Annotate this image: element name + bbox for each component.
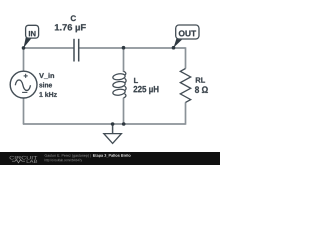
footer logo squiggle <box>12 160 25 163</box>
voltage source plus sign <box>24 74 28 78</box>
wire left branch upper <box>23 47 25 71</box>
wire inductor bottom lead <box>123 98 125 124</box>
voltage source sine wave <box>15 80 30 91</box>
inductor L coil <box>112 71 126 98</box>
voltage source minus sign <box>22 91 27 93</box>
voltage source V1 circle <box>10 71 37 98</box>
wire inductor top lead <box>123 48 125 72</box>
label V_in <box>39 73 54 79</box>
wire top-right segment <box>79 47 186 49</box>
footer CircuitLab logo wordmark <box>10 156 38 163</box>
label C value 1.76 uF <box>55 24 86 32</box>
label C <box>71 15 76 21</box>
label sine <box>39 82 52 87</box>
flag OUT box <box>176 25 199 39</box>
wire bottom <box>23 123 186 125</box>
label 1 kHz <box>39 92 56 97</box>
node dot inductor bottom <box>122 122 126 126</box>
wire left branch lower <box>23 98 25 124</box>
flag IN tail <box>24 37 32 48</box>
ground stub <box>112 124 114 134</box>
flag OUT tail <box>174 38 183 47</box>
footer credit line 2 <box>45 159 82 162</box>
node dot inductor top <box>122 46 126 50</box>
flag IN text <box>29 31 36 36</box>
node dot IN <box>22 46 26 50</box>
label 8 Ohm <box>195 86 208 93</box>
footer credit line 1 white part <box>93 154 131 158</box>
flag OUT text <box>179 30 196 36</box>
wire right branch upper <box>185 47 187 68</box>
capacitor C plates <box>74 39 79 62</box>
wire top-left segment <box>24 47 74 49</box>
resistor RL zigzag <box>180 69 190 103</box>
label RL <box>196 77 205 82</box>
label L <box>134 78 138 83</box>
label 225 uH <box>133 86 158 94</box>
ground triangle <box>104 134 122 144</box>
wire right branch lower <box>185 102 187 124</box>
node dot ground <box>111 122 115 126</box>
flag IN box <box>26 25 39 38</box>
footer credit line 1 gray part <box>45 154 91 157</box>
node dot OUT <box>172 46 176 50</box>
footer bar <box>0 152 220 165</box>
